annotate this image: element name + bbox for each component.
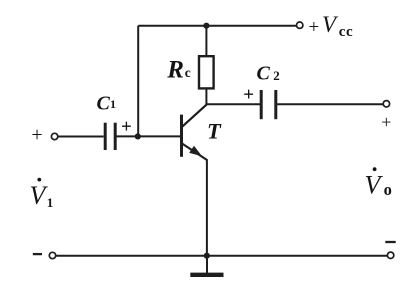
wire collector node to C2 [206, 103, 260, 105]
transistor T base bar [180, 115, 183, 157]
terminal bottom-left open circle [49, 252, 55, 258]
node top junction [203, 23, 209, 29]
wire Rc bottom lead to collector node [205, 88, 207, 105]
svg-text:+: + [309, 17, 320, 38]
wire bottom rail [56, 255, 388, 257]
wire input to C1 [58, 136, 104, 138]
capacitor C1 [105, 123, 115, 150]
svg-text:C: C [257, 63, 271, 85]
label C2 [257, 63, 280, 85]
svg-text:V: V [365, 171, 384, 200]
node bottom junction [204, 253, 210, 259]
svg-text:+: + [381, 112, 391, 132]
svg-text:+: + [243, 84, 254, 105]
svg-text:+: + [31, 124, 42, 146]
svg-text:1: 1 [110, 97, 116, 111]
transistor T emitter arrow [190, 147, 201, 156]
wire C2 to output terminal [276, 103, 383, 105]
svg-text:R: R [166, 57, 184, 84]
svg-text:V: V [30, 181, 49, 210]
svg-text:V: V [322, 12, 339, 37]
node base junction [135, 133, 141, 139]
svg-text:o: o [384, 180, 392, 199]
label Vo [365, 167, 392, 199]
svg-text:C: C [97, 92, 111, 114]
svg-text:+: + [121, 116, 132, 137]
label + (C1 polarity) [121, 116, 132, 137]
wire ground stub [206, 256, 208, 273]
terminal output open circle [383, 101, 389, 107]
label + (input) [31, 124, 42, 146]
svg-text:cc: cc [339, 24, 354, 40]
label + (C2 polarity) [243, 84, 254, 105]
svg-text:2: 2 [273, 68, 280, 83]
terminal +Vcc open circle [297, 22, 303, 28]
wire top rail [138, 25, 296, 27]
wire C1 to base [115, 135, 180, 137]
svg-text:1: 1 [47, 195, 54, 210]
wire left vertical (top rail to base node) [137, 26, 139, 137]
label + (output top) [381, 112, 391, 132]
label C1 [97, 92, 117, 114]
label +Vcc [309, 12, 354, 40]
transistor T collector stroke [182, 104, 207, 126]
wire Rc top lead [205, 26, 207, 56]
ground [190, 273, 223, 277]
terminal input open circle [51, 133, 57, 139]
svg-text:T: T [207, 119, 222, 144]
resistor Rc [199, 56, 214, 88]
svg-text:c: c [185, 65, 191, 80]
label V1 [30, 178, 54, 210]
label T [207, 119, 222, 144]
wire emitter to bottom rail [206, 159, 208, 256]
capacitor C2 [261, 90, 276, 119]
transistor T emitter stroke [182, 144, 207, 161]
label - (bottom right) [385, 241, 395, 243]
terminal bottom-right open circle [387, 252, 393, 258]
label Rc [166, 57, 191, 84]
label - (bottom left) [33, 253, 42, 255]
